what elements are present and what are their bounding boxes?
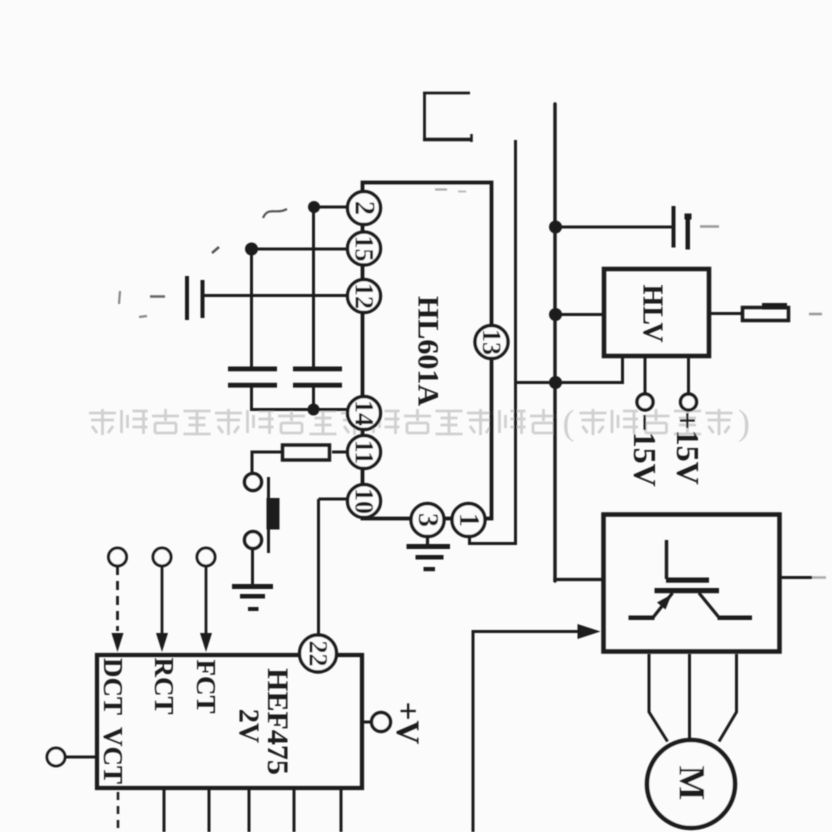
svg-text:15: 15	[350, 236, 379, 262]
svg-text:HEF475: HEF475	[261, 668, 294, 775]
svg-text:RCT: RCT	[149, 657, 179, 714]
svg-text:+V: +V	[389, 702, 425, 745]
svg-text:2: 2	[349, 201, 380, 215]
svg-text:11: 11	[350, 440, 379, 465]
svg-text:+15V: +15V	[670, 411, 706, 484]
svg-text:M: M	[671, 766, 712, 801]
svg-text:12: 12	[350, 283, 379, 309]
svg-text:2V: 2V	[233, 709, 264, 743]
svg-text:14: 14	[350, 400, 379, 426]
svg-text:DCT: DCT	[98, 658, 128, 715]
svg-text:HLV: HLV	[637, 284, 668, 342]
svg-text:13: 13	[477, 329, 506, 355]
svg-text:): )	[738, 403, 750, 443]
svg-text:22: 22	[304, 641, 333, 667]
svg-text:−15V: −15V	[627, 413, 663, 486]
svg-text:HL601A: HL601A	[412, 296, 445, 406]
svg-text:(: (	[563, 403, 575, 443]
svg-text:10: 10	[350, 488, 379, 514]
svg-text:3: 3	[412, 513, 443, 527]
svg-text:FCT: FCT	[191, 660, 221, 714]
svg-text:VCT: VCT	[98, 727, 128, 784]
svg-text:1: 1	[453, 513, 484, 527]
